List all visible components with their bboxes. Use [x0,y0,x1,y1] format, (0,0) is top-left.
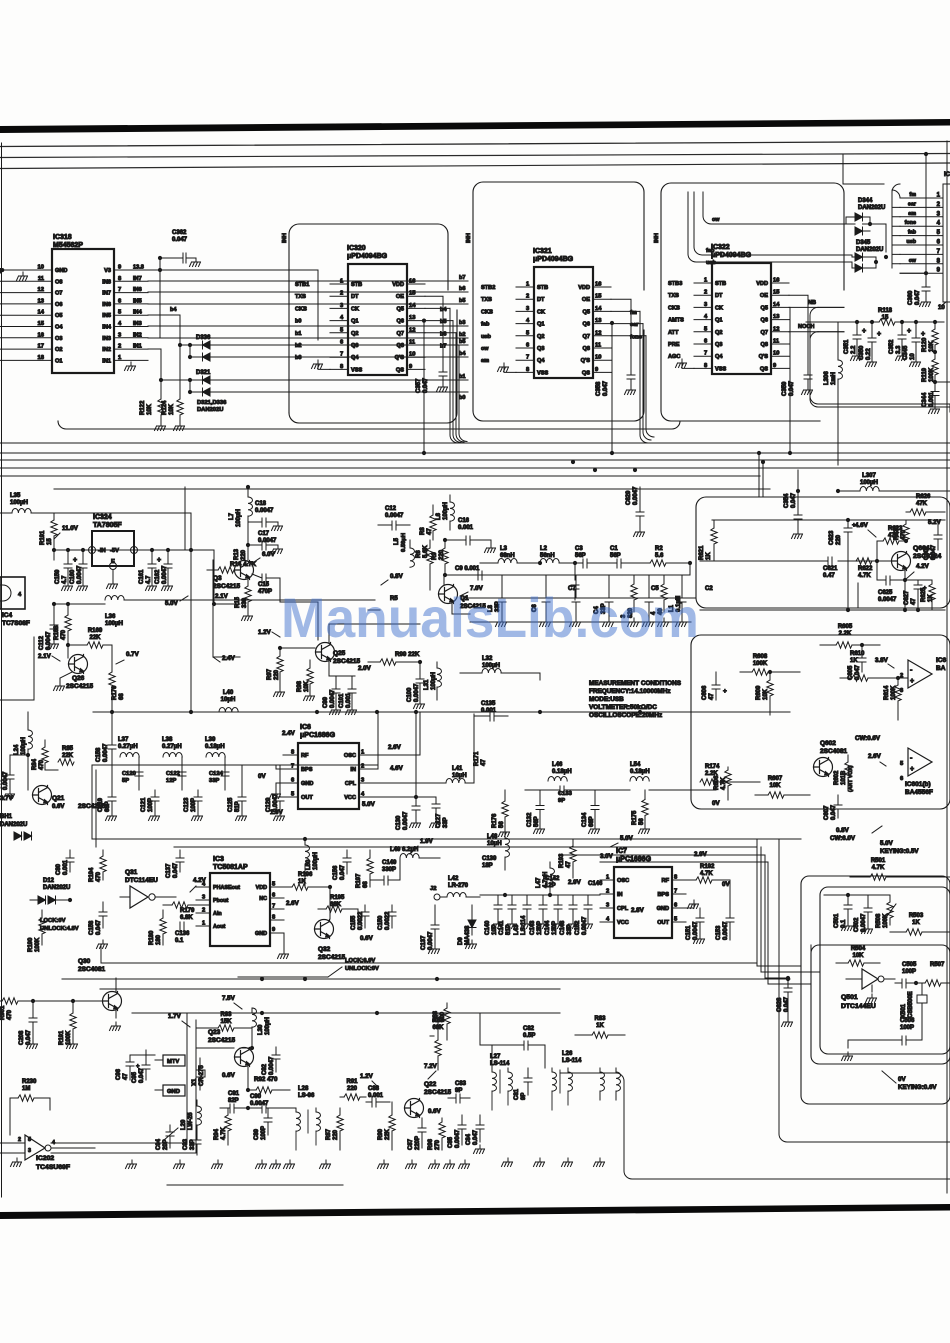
svg-text:0.001: 0.001 [458,525,474,531]
svg-text:L31: L31 [424,679,430,690]
svg-text:fab: fab [908,230,917,236]
capacitor C351 [856,322,858,335]
svg-text:Q8: Q8 [761,342,768,348]
svg-text:5.0V: 5.0V [165,600,179,607]
svg-text:R614: R614 [884,685,890,700]
svg-text:X501: X501 [901,1003,907,1018]
wire verticals to IC202 [51,1013,187,1143]
svg-text:RF: RF [662,878,670,884]
IC7 GND ground [686,900,694,908]
svg-text:MODE:USB: MODE:USB [589,696,624,703]
svg-text:fone: fone [905,220,916,226]
svg-text:O8: O8 [55,279,62,285]
svg-text:0.5P: 0.5P [523,1033,535,1039]
svg-text:R180: R180 [149,930,155,945]
wire rows into keying [810,945,812,984]
svg-text:Q2: Q2 [715,330,722,336]
svg-text:11: 11 [773,339,780,345]
svg-text:C351: C351 [844,339,850,354]
svg-text:7: 7 [118,287,121,293]
wire row y712 to right [238,711,790,713]
svg-text:56P: 56P [575,553,586,559]
svg-text:R6: R6 [416,550,422,558]
bus junction dots [422,451,426,455]
svg-text:b4: b4 [440,307,447,313]
wire L27 net [480,1013,545,1068]
svg-text:IN4: IN4 [133,310,143,316]
svg-text:C208: C208 [19,1030,25,1045]
connector pin stub wires [900,197,943,199]
ground near IC318 input [17,272,28,281]
inductor L26b pair [600,1068,616,1072]
ladder filter wire [92,760,283,769]
svg-text:INH: INH [466,233,472,243]
svg-text:0.18μH: 0.18μH [205,744,225,750]
wire frame to diode bundle [842,155,844,184]
keying box3 [811,945,950,1064]
svg-text:IC3: IC3 [213,856,224,863]
svg-text:DT: DT [351,294,359,300]
svg-text:Q1: Q1 [715,318,722,324]
wire row y978 to C628 [765,977,788,979]
svg-text:C505: C505 [902,962,917,968]
svg-text:IN6: IN6 [133,287,142,293]
svg-text:-5V: -5V [110,548,119,554]
svg-text:-IN: -IN [98,548,106,554]
wire long row y989 [100,988,560,990]
wire right edge vertical [946,141,948,1193]
transistor Q21 [33,786,52,805]
svg-text:L46: L46 [552,762,563,768]
keying outer box [801,876,950,1104]
svg-text:13: 13 [409,315,416,321]
svg-text:330P: 330P [382,867,396,873]
svg-text:Q602: Q602 [820,740,836,747]
svg-text:L2: L2 [540,546,548,552]
svg-text:BPS: BPS [657,892,669,898]
svg-text:O7: O7 [55,291,62,297]
svg-text:C83: C83 [455,1081,467,1087]
svg-text:C141: C141 [499,920,505,935]
svg-text:OSCILLOSCOPE:20MHz: OSCILLOSCOPE:20MHz [589,712,662,719]
svg-text:R118: R118 [878,308,893,314]
capacitor C344 [934,382,936,392]
transistor Q604 [892,552,911,571]
wire 7.0V row to box [462,597,696,599]
svg-text:100P: 100P [902,969,916,975]
svg-text:270: 270 [435,1139,441,1150]
svg-text:C360: C360 [908,290,914,305]
svg-text:3: 3 [28,1148,31,1154]
svg-text:101B: 101B [841,770,847,785]
svg-text:DAN202U: DAN202U [856,247,883,253]
wire long row y963 [101,945,757,963]
IC6 GND ground [276,783,283,790]
svg-text:C137: C137 [421,935,427,950]
svg-text:100μH: 100μH [21,737,27,755]
left box around IC4 [0,637,34,700]
filter shunt caps to ground row [498,575,506,618]
svg-text:ManualsLib.com: ManualsLib.com [281,586,699,649]
resistor R120 [934,322,936,329]
svg-text:R196: R196 [298,872,313,878]
svg-text:R88: R88 [433,1010,439,1022]
svg-text:11: 11 [38,276,45,282]
svg-text:R120: R120 [922,337,928,352]
svg-text:0.047: 0.047 [784,996,790,1012]
wire row y712 [93,711,740,713]
svg-text:NC: NC [259,896,267,902]
wire row y620 [470,621,691,623]
IC202 input ground [11,1158,22,1167]
svg-text:CKS: CKS [481,309,493,315]
svg-text:56nH: 56nH [540,553,555,559]
svg-text:DAN202U: DAN202U [197,407,223,413]
svg-text:R93: R93 [220,1012,232,1018]
svg-text:56P: 56P [610,553,621,559]
svg-text:BA4556F: BA4556F [905,789,933,796]
svg-text:10: 10 [773,351,779,357]
svg-text:47: 47 [427,528,433,535]
svg-text:9P: 9P [558,798,565,804]
capacitor C134 [594,790,596,806]
svg-text:L5: L5 [394,537,400,545]
op-amp IC601a [908,660,932,688]
connector J2 [434,894,440,900]
svg-text:C137: C137 [166,863,172,878]
svg-text:C18: C18 [255,501,267,507]
svg-text:STB: STB [351,282,362,288]
svg-text:O5: O5 [55,313,62,319]
svg-text:100P: 100P [191,798,197,812]
svg-text:220: 220 [347,1086,358,1092]
svg-text:TXS: TXS [295,294,306,300]
box around Q604 regulator [696,497,950,608]
IC7 box [614,867,672,938]
svg-text:15: 15 [773,290,780,296]
IC318 box [52,249,114,373]
Q604 ground rail [700,609,945,611]
svg-text:0.0047: 0.0047 [3,771,9,790]
svg-text:220: 220 [274,669,280,680]
svg-text:C81: C81 [514,1088,520,1100]
svg-text:cw: cw [712,217,720,223]
svg-text:2: 2 [340,291,343,297]
wire C354 to box [797,470,799,497]
svg-text:Q6: Q6 [583,322,590,328]
svg-text:VSS: VSS [715,366,726,372]
svg-text:16: 16 [595,282,602,288]
svg-text:14: 14 [38,310,45,316]
svg-text:(ANT VOX): (ANT VOX) [848,765,854,792]
svg-text:22K: 22K [62,753,74,759]
wire IC324 output [134,550,214,560]
svg-text:IN5: IN5 [133,298,142,304]
svg-text:2SC4215: 2SC4215 [66,683,93,690]
wire Q604 emitter down [904,570,906,610]
svg-text:fm: fm [909,192,916,198]
svg-text:C607: C607 [824,805,830,820]
svg-text:33P: 33P [209,778,219,784]
svg-text:R230: R230 [22,1079,37,1085]
svg-text:+: + [73,557,77,564]
svg-text:2.8V: 2.8V [631,907,645,914]
svg-text:2.4V: 2.4V [282,730,296,737]
svg-text:0.0047: 0.0047 [330,689,336,708]
svg-text:0.047: 0.047 [603,380,609,396]
INH loop around IC320 [289,224,448,413]
IC7 right pins [672,879,686,881]
svg-text:14: 14 [409,303,416,309]
svg-text:R174: R174 [705,764,720,770]
svg-text:TC7S08F: TC7S08F [2,620,30,627]
svg-text:1.2V: 1.2V [360,1073,374,1080]
svg-text:TXS: TXS [668,293,679,299]
wire fab [694,192,844,255]
svg-text:Q'S: Q'S [759,354,769,360]
IC318 left pin stubs [0,269,52,271]
svg-text:IN6: IN6 [102,302,111,308]
svg-text:0.047: 0.047 [26,1029,32,1045]
svg-text:-: - [910,755,913,762]
wire keying row y895 [824,894,890,896]
svg-text:IC324: IC324 [93,514,112,521]
svg-text:D321: D321 [196,370,211,376]
svg-text:10: 10 [595,355,601,361]
svg-text:C139: C139 [482,856,497,862]
transistor Q26 [69,655,88,674]
svg-text:0.0047: 0.0047 [455,1129,461,1148]
wire Q30 collector up [115,978,117,992]
svg-text:0.0047: 0.0047 [385,513,404,519]
svg-text:CK: CK [537,309,545,315]
svg-text:TXS: TXS [481,297,492,303]
svg-text:INH: INH [654,233,660,243]
svg-text:C96: C96 [116,1068,122,1080]
svg-text:C136: C136 [175,931,190,937]
svg-text:Q5: Q5 [583,309,590,315]
svg-text:0.0047: 0.0047 [77,565,83,584]
svg-text:IN2: IN2 [133,332,142,338]
svg-text:IC4: IC4 [2,612,13,619]
svg-text:b1: b1 [459,374,466,380]
wire Q25 collector emitter [329,624,420,676]
capacitor C162 [167,550,169,564]
svg-text:470: 470 [7,1009,13,1020]
svg-text:IC320: IC320 [347,245,366,252]
svg-text:10K: 10K [304,680,310,692]
svg-text:L40: L40 [223,690,234,696]
svg-text:Q7: Q7 [397,331,404,337]
svg-text:C155: C155 [351,915,357,930]
IC3 left pins [196,886,210,888]
svg-text:R99 22K: R99 22K [395,651,420,658]
svg-text:47: 47 [123,1073,129,1080]
wire b4 vertical [179,315,181,392]
svg-text:L36: L36 [105,614,116,620]
bus wire 4 [0,467,950,469]
svg-text:STB3: STB3 [668,281,682,287]
svg-text:R191: R191 [40,530,46,545]
svg-text:GND: GND [255,931,267,937]
svg-text:b2: b2 [295,343,302,349]
svg-text:0.047: 0.047 [931,544,937,560]
GND box [163,1085,185,1096]
svg-text:CW:0.6V: CW:0.6V [855,735,881,742]
svg-text:C625: C625 [878,590,893,596]
svg-text:470: 470 [61,629,67,640]
IC3 right pins [270,886,284,888]
svg-text:11: 11 [595,343,602,349]
svg-text:100μH: 100μH [265,1017,271,1035]
svg-text:1M: 1M [22,1086,30,1092]
wire Q604 base row [700,541,891,580]
svg-text:AMTS: AMTS [668,318,684,324]
IC6 left pins [283,754,298,756]
wire b0 from D321 [210,391,468,393]
svg-text:Q7: Q7 [761,330,768,336]
transistor Q32 [315,920,334,939]
svg-text:Q3: Q3 [351,343,358,349]
svg-text:L3: L3 [500,546,508,552]
svg-text:0V: 0V [898,1076,906,1083]
svg-text:C100: C100 [407,687,413,702]
svg-text:C101: C101 [339,693,345,708]
svg-text:10K: 10K [169,403,175,415]
svg-text:IC6: IC6 [936,657,947,664]
svg-text:VOLTMETER:50kΩ/DC: VOLTMETER:50kΩ/DC [589,704,657,711]
IC324 E ground [112,570,114,581]
wire long row y979 [62,978,790,980]
svg-text:33P: 33P [443,817,449,828]
svg-text:C158: C158 [89,920,95,935]
svg-text:b0: b0 [459,395,466,401]
svg-text:0.0022: 0.0022 [358,911,364,930]
svg-text:C501: C501 [834,913,840,928]
IC321 left pins [516,286,534,288]
svg-text:C621: C621 [823,566,838,572]
outer loop bottom wire [58,421,680,429]
svg-text:L24: L24 [14,744,20,755]
svg-text:100P: 100P [261,1126,267,1140]
svg-text:16: 16 [409,279,416,285]
capacitor C350 [871,322,873,338]
svg-text:56: 56 [639,818,645,825]
svg-text:C602: C602 [924,545,930,560]
IC6 box [298,743,359,809]
svg-text:2.4V: 2.4V [222,655,236,662]
svg-text:O1: O1 [55,358,62,364]
svg-text:100K: 100K [35,937,41,952]
svg-text:4.7K: 4.7K [858,573,871,579]
svg-text:Q22: Q22 [424,1081,437,1088]
svg-text:C162: C162 [155,569,161,584]
wire IN1 to diodes [148,349,161,380]
svg-text:D9: D9 [458,937,464,945]
svg-text:usb: usb [706,260,717,266]
svg-text:C153: C153 [716,925,722,940]
svg-text:10K: 10K [769,783,781,789]
inductor L27 pair [492,1068,508,1072]
svg-text:R176: R176 [492,813,498,828]
svg-text:C140: C140 [485,920,491,935]
svg-text:0.001: 0.001 [346,692,352,708]
svg-text:C15: C15 [258,582,270,588]
svg-text:0.22: 0.22 [866,348,872,360]
wire cw to D344 [703,192,844,224]
left page edge line [1,143,3,1197]
svg-text:BA: BA [936,665,946,672]
svg-text:MEASUREMENT CONDITIONS: MEASUREMENT CONDITIONS [589,680,682,687]
svg-text:CK: CK [351,306,359,312]
svg-text:C344: C344 [922,392,928,407]
svg-text:b6: b6 [459,286,466,292]
svg-text:C80: C80 [56,863,62,875]
svg-text:fab: fab [706,248,715,254]
svg-text:DTC114EU: DTC114EU [125,877,158,884]
top-right stub bundle corners [892,184,900,268]
capacitor C352 [901,322,903,335]
svg-text:5.2V: 5.2V [928,519,942,526]
svg-text:OUT: OUT [657,920,669,926]
svg-text:C121: C121 [141,797,147,812]
IC322 right pins [771,282,789,284]
svg-text:0.047: 0.047 [915,289,921,305]
svg-text:C123: C123 [184,797,190,812]
svg-text:QS: QS [582,370,590,376]
svg-text:18: 18 [38,355,45,361]
svg-text:Q26: Q26 [72,675,85,682]
wire IC7 row [480,894,600,896]
svg-text:2.9V: 2.9V [568,879,582,886]
svg-text:0.6V: 0.6V [222,1072,236,1079]
svg-text:Q'S: Q'S [581,358,591,364]
svg-text:+: + [877,331,881,338]
svg-text:PRE: PRE [668,342,680,348]
IC4 box [0,577,25,609]
svg-text:15: 15 [47,538,53,545]
transistor Q31 inverter [130,886,148,908]
svg-text:C91: C91 [228,1091,240,1097]
svg-text:2.1V: 2.1V [38,653,52,660]
svg-text:C148: C148 [560,920,566,935]
svg-text:C135: C135 [481,701,496,707]
svg-text:0.047: 0.047 [340,864,346,880]
svg-text:470: 470 [39,759,45,770]
wire rows to PLL [93,838,801,840]
svg-text:C16: C16 [458,518,470,524]
svg-text:IN7: IN7 [102,291,111,297]
svg-text:Q23: Q23 [208,1029,221,1036]
svg-text:C79: C79 [0,778,2,790]
capacitor C161 [151,550,153,564]
svg-text:R607: R607 [768,776,783,782]
IC4 gate symbol [0,585,11,601]
svg-text:6.0V: 6.0V [262,551,276,558]
IC322 box [712,263,771,374]
svg-text:0.047: 0.047 [473,1129,479,1145]
svg-text:R606: R606 [714,775,720,790]
svg-text:0.1: 0.1 [175,938,184,944]
svg-text:fab: fab [481,322,490,328]
wire 13.8 net [148,270,318,340]
svg-text:Ain: Ain [213,911,222,917]
svg-text:9P: 9P [455,1088,462,1094]
svg-text:4: 4 [18,592,22,598]
wire Q604 collector down [857,583,859,608]
svg-text:Q1: Q1 [537,322,544,328]
svg-text:0.6V: 0.6V [360,935,374,942]
